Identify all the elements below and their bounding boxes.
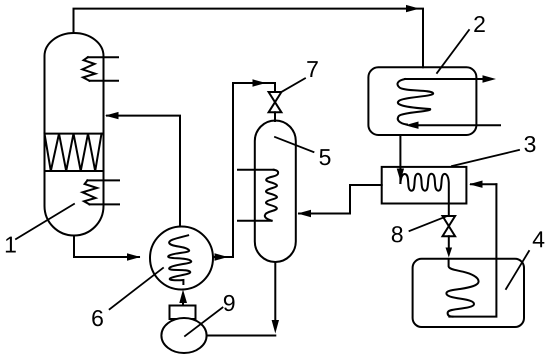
coil in vessel 4: serpentine [446, 260, 478, 317]
vessel 5 shell [255, 121, 296, 262]
arrowhead on valve-7 feed (points right) [253, 79, 267, 86]
wire: pump 9 up to exchanger 6, arrow up [182, 301, 184, 306]
wire: vessel 2 bottom outlet down into exchanger 3, arrow down [399, 135, 401, 183]
valve 7 (bowtie) [269, 92, 282, 112]
coil in vessel 2: bottom line with left arrow [418, 124, 500, 126]
leader 5 [275, 137, 314, 152]
label 8 [392, 226, 403, 242]
packing zigzag W pattern [45, 134, 102, 171]
coil in vessel 5: spring [265, 170, 278, 221]
wire: exchanger 3 down to valve 8 [448, 204, 450, 217]
wire: pump 9 outlet to the right [207, 335, 276, 337]
wire: recycle from exchanger 6 up and into column 1 [107, 116, 180, 227]
coil C-bottom in column 1: stubs [87, 180, 119, 204]
wire: line above valve 7 [274, 83, 276, 92]
leader 2 [437, 30, 469, 73]
pump 9 ellipse [161, 318, 206, 353]
leader 9 [185, 308, 223, 337]
heat exchanger 3 box [382, 167, 467, 204]
arrowhead on top wire (points right) [406, 5, 420, 12]
coil in vessel 5: stubs [238, 170, 274, 221]
coil in vessel 2: serpentine [397, 79, 433, 125]
pump 9 body rectangle [170, 306, 196, 320]
leader 6 [110, 268, 163, 309]
coil inside exchanger 6 [168, 235, 191, 284]
arrowhead toward circle 6 (points right) [127, 253, 141, 260]
arrowhead into column (points left) [105, 112, 119, 119]
leader 7 [281, 78, 306, 92]
vessel: column 1 shell [45, 33, 104, 236]
label 7 [307, 61, 317, 77]
wire: exchanger 6 to riser (points right) [213, 256, 233, 258]
wire: exchanger 3 outlet to vessel 5 [299, 185, 382, 214]
coil in vessel 2: top line with right arrow [405, 78, 483, 80]
coil C-top in column 1: stubs [88, 57, 118, 81]
wire: column 1 bottom to exchanger 6 [74, 236, 139, 258]
leader 3 [452, 150, 519, 166]
leader 8 [410, 217, 446, 231]
wire: valve 8 down to vessel 4, small arrow down [448, 236, 450, 250]
label 9 [224, 295, 235, 311]
label 3 [524, 136, 535, 152]
vessel 4 shell [413, 259, 524, 327]
leader 1 [16, 204, 74, 239]
coil C-top zigzag [82, 57, 95, 81]
heat exchanger 6 circle [150, 227, 213, 290]
valve 8 (bowtie) [443, 216, 456, 236]
wire: vessel 5 bottom outlet, arrow down [274, 262, 276, 322]
label 6 [92, 310, 103, 326]
label 1 [6, 237, 16, 253]
wire: riser from vessel 4 coil up into exchanger 3 right side [471, 183, 496, 185]
leader 4 [506, 251, 529, 289]
wire: column 1 top outlet across to condenser 2 [74, 9, 424, 68]
coil in exchanger 3 [400, 174, 448, 204]
label 2 [474, 16, 484, 32]
coil in vessel 4: bottom line and riser up [449, 184, 496, 316]
coil C-bottom zigzag [83, 180, 98, 204]
arrowhead into vessel 5 (points left) [298, 210, 312, 217]
label 4 [533, 231, 545, 247]
label 5 [320, 149, 331, 165]
vessel 2 shell (condenser) [368, 67, 476, 135]
wire: riser up to valve 7 line [233, 83, 275, 257]
wire: valve 7 to vessel 5 top [274, 112, 276, 121]
packing band lines [45, 134, 104, 171]
